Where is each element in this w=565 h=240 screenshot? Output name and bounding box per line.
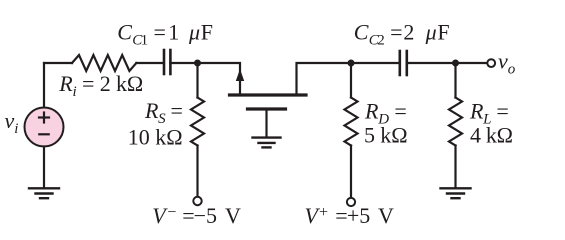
terminal V- open circle — [193, 197, 201, 205]
node B junction dot — [348, 60, 355, 67]
wire: node B to CC2 — [351, 62, 399, 64]
terminal V+ open circle — [347, 198, 355, 206]
svg-text:CC2=2μF: CC2=2μF — [354, 20, 450, 49]
wire: left vertical from main wire down to source top — [43, 63, 45, 108]
wire: drain node to RD — [350, 63, 352, 98]
svg-text:vo: vo — [498, 49, 516, 78]
wire: CC2 to node C — [407, 62, 456, 64]
wire: RD to V+ terminal — [350, 146, 352, 197]
wire: CC1 to transistor source corner — [170, 63, 240, 94]
wire: node C down to RL — [454, 63, 456, 98]
wire: gate to ground — [265, 111, 267, 138]
wire: top-left corner to resistor Ri — [44, 62, 72, 64]
transistor drain lead — [297, 63, 352, 94]
ground (below source) — [29, 188, 59, 198]
resistor RL — [449, 98, 462, 146]
resistor RD — [345, 98, 358, 146]
capacitor CC2 — [400, 51, 407, 75]
wire: RS to V- terminal — [196, 146, 198, 196]
wire: source bottom to ground — [43, 147, 45, 189]
svg-text:CC1=1μF: CC1=1μF — [117, 20, 213, 49]
voltage source vi — [25, 108, 64, 147]
svg-text:V−=−5V: V−=−5V — [152, 203, 241, 228]
resistor Ri — [72, 55, 136, 71]
svg-text:RS =: RS = — [144, 98, 183, 127]
svg-text:vi: vi — [5, 108, 19, 137]
wire: Ri to capacitor CC1 — [136, 62, 162, 64]
svg-text:10 kΩ: 10 kΩ — [128, 125, 183, 150]
wire: RL to ground — [454, 146, 456, 189]
ground (below RL) — [441, 188, 471, 198]
transistor arrow (source lead, pointing up) — [236, 69, 244, 81]
svg-text:5 kΩ: 5 kΩ — [364, 122, 407, 147]
svg-text:4 kΩ: 4 kΩ — [470, 122, 513, 147]
capacitor CC1 — [164, 50, 170, 74]
svg-text:V+=+5V: V+=+5V — [305, 203, 395, 228]
terminal vo open circle — [487, 59, 495, 67]
wire: node A down to RS — [196, 63, 198, 98]
transistor gate bar — [248, 107, 286, 110]
transistor channel bar — [230, 93, 307, 96]
wire: node C to output terminal — [456, 62, 487, 64]
resistor RS — [191, 98, 204, 146]
node C junction dot — [452, 60, 459, 67]
node A junction dot — [194, 60, 201, 67]
svg-text:Ri = 2 kΩ: Ri = 2 kΩ — [58, 71, 143, 100]
ground (gate) — [253, 138, 281, 148]
